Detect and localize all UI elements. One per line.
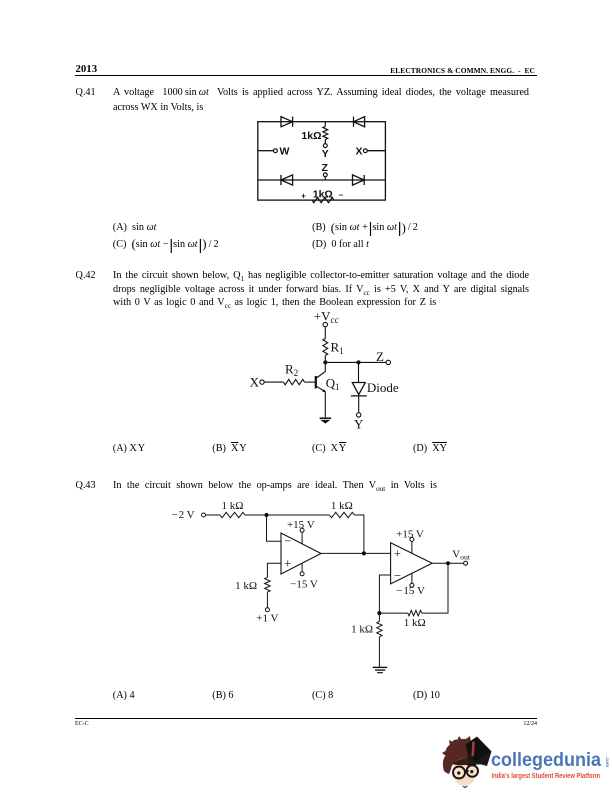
ground: [373, 667, 388, 672]
node +15V terminal (U1): [300, 528, 304, 532]
wire +15V stub (U2): [411, 541, 413, 553]
wire node3 to ground R: [378, 613, 380, 621]
svg-text:Vout: Vout: [452, 549, 471, 562]
wire base: [305, 381, 316, 383]
mortarboard cap: [466, 737, 492, 767]
svg-text:Q1: Q1: [326, 376, 340, 393]
svg-text:India's largest Student Review: India's largest Student Review Platform: [492, 771, 601, 780]
wire from X: [367, 150, 385, 152]
wire -15V stub (U2): [411, 573, 413, 583]
node n1 junction: [264, 513, 268, 517]
wire node to Z: [325, 361, 386, 363]
diode D1 top-left: [281, 117, 293, 127]
svg-text:Y: Y: [354, 416, 364, 431]
wire collector: [316, 362, 325, 378]
wire U2 output: [432, 562, 463, 564]
wire: outer bridge loop: [258, 122, 386, 200]
node n3 junction: [377, 611, 381, 615]
wire R to +1V: [266, 592, 268, 608]
svg-text:X: X: [250, 374, 260, 389]
wire Vout down: [422, 563, 448, 613]
glasses: [467, 763, 476, 766]
svg-text:1 kΩ: 1 kΩ: [235, 580, 257, 592]
diode (to Y): [351, 383, 367, 396]
node +15V terminal (U2): [410, 537, 414, 541]
svg-text:1 kΩ: 1 kΩ: [351, 623, 373, 635]
svg-text:+: +: [301, 192, 306, 201]
resistor 1kΩ (top, to Y): [323, 122, 328, 144]
wire -2V to R: [206, 514, 221, 516]
svg-text:+: +: [394, 546, 401, 560]
resistor 1kΩ (input): [220, 512, 245, 517]
wire: middle bus: [258, 179, 386, 181]
wire node1 to U1 inverting input: [267, 515, 282, 541]
svg-text:− 2 V: − 2 V: [172, 509, 195, 521]
node Z terminal: [323, 173, 327, 177]
wire R1 to collector node: [324, 356, 326, 363]
node +Vcc terminal: [323, 322, 327, 326]
svg-text:Y: Y: [322, 148, 329, 160]
resistor 1kΩ (to +1V): [265, 577, 270, 592]
wire U2 inverting input: [379, 575, 390, 613]
op-amp U2: [391, 543, 433, 584]
svg-text:1kΩ: 1kΩ: [301, 130, 321, 142]
wire U1 output: [321, 552, 391, 554]
resistor R2: [283, 379, 304, 384]
wire +15V stub (U1): [301, 532, 303, 544]
svg-text:1kΩ: 1kΩ: [313, 188, 333, 200]
svg-text:1 kΩ: 1 kΩ: [404, 617, 426, 629]
svg-text:− 15 V: − 15 V: [396, 585, 425, 597]
node Vout terminal: [464, 561, 468, 565]
svg-text:−: −: [394, 568, 401, 582]
svg-text:1 kΩ: 1 kΩ: [331, 500, 353, 512]
node diode junction: [357, 360, 361, 364]
node +1V terminal: [265, 608, 269, 612]
wire U1 noninverting input: [267, 563, 281, 577]
wire X to R2: [264, 381, 283, 383]
node Y terminal: [323, 144, 327, 148]
diode D3 lower-left: [281, 175, 293, 185]
node X terminal: [363, 149, 367, 153]
wire feedback to output: [354, 515, 364, 553]
wire Vcc to R1: [324, 327, 326, 339]
node W terminal: [274, 149, 278, 153]
ground (transistor emitter): [320, 418, 332, 423]
resistor R1: [323, 339, 328, 356]
emitter arrowhead: [322, 389, 325, 392]
svg-text:X: X: [355, 146, 362, 158]
node Z terminal: [386, 360, 390, 364]
wire node1 to feedback R: [267, 514, 330, 516]
node X terminal: [260, 380, 264, 384]
mouth: [462, 786, 468, 788]
resistor 1kΩ (feedback U2): [408, 610, 422, 615]
wire -15V stub (U1): [301, 563, 303, 572]
op-amp U1: [281, 533, 321, 574]
wire feedback R to node3: [379, 612, 407, 614]
svg-text:Z: Z: [376, 349, 384, 364]
node -15V terminal (U2): [410, 583, 414, 587]
node collector junction: [323, 360, 327, 364]
svg-text:−15 V: −15 V: [290, 578, 318, 590]
svg-text:−: −: [284, 534, 291, 548]
resistor 1kΩ (bottom): [312, 198, 334, 203]
node -2V terminal: [202, 513, 206, 517]
svg-text:Diode: Diode: [367, 380, 399, 395]
resistor 1kΩ (to ground): [377, 621, 382, 636]
svg-text:R1: R1: [331, 340, 344, 357]
wire R to ground: [378, 637, 380, 668]
wire R to node1: [245, 514, 267, 516]
diode D4 lower-right: [353, 175, 365, 185]
svg-text:1 kΩ: 1 kΩ: [222, 500, 244, 512]
node n2 junction: [362, 551, 366, 555]
wire to W: [258, 150, 274, 152]
face: [453, 758, 477, 786]
svg-text:+: +: [284, 556, 291, 570]
transistor Q1 base bar: [315, 376, 317, 388]
node Vout junction: [446, 561, 450, 565]
svg-text:.com: .com: [604, 756, 609, 767]
svg-text:W: W: [280, 146, 290, 158]
hair: [443, 739, 473, 774]
node -15V terminal (U1): [300, 572, 304, 576]
diode D2 top-right: [354, 117, 365, 127]
svg-text:R2: R2: [285, 362, 299, 379]
wire emitter: [316, 386, 325, 417]
svg-text:collegedunia: collegedunia: [491, 749, 601, 771]
wire junction to diode: [358, 362, 360, 382]
wire diode to Y: [358, 396, 360, 413]
wire Z stub: [324, 177, 326, 180]
resistor 1kΩ (feedback op1): [329, 512, 354, 517]
node Y terminal: [357, 413, 361, 417]
svg-text:+1 V: +1 V: [256, 612, 278, 624]
svg-text:–: –: [339, 191, 344, 200]
